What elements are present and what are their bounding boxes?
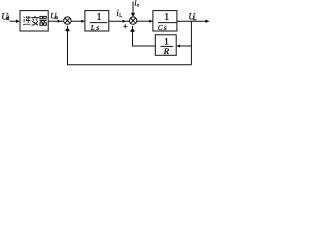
- svg-text:L: L: [119, 13, 122, 19]
- wire outer feedback bottom: [68, 26, 192, 65]
- value label 1 over R: [164, 38, 169, 48]
- glyph 逆: [23, 16, 30, 25]
- glyph 器: [40, 16, 47, 25]
- svg-text:s: s: [96, 23, 99, 32]
- arrowhead into 1/Cs: [149, 20, 153, 23]
- wire 1/Ls to sum2: [109, 20, 130, 22]
- node Udc input label: [1, 11, 9, 22]
- svg-text:dc: dc: [6, 16, 10, 22]
- arrowhead output: [205, 20, 209, 23]
- wire sum2 to block 1/Cs: [137, 20, 153, 22]
- wire 1/R output to sum2 bottom: [133, 26, 156, 46]
- wire 1/Cs to output: [177, 20, 206, 22]
- wire branch into 1/R: [180, 45, 191, 47]
- block 1/R: [155, 35, 176, 56]
- arrowhead into 1/Ls: [81, 20, 85, 23]
- node iL label: [116, 8, 122, 19]
- arrowhead 1/R feedback into sum2 bottom: [131, 28, 135, 32]
- wire input to inverter: [10, 20, 17, 22]
- arrowhead into sum1: [58, 20, 62, 23]
- svg-text:R: R: [163, 46, 170, 56]
- glyph 变: [31, 16, 39, 26]
- wire feedback vertical from output node: [190, 21, 192, 65]
- arrowhead into inverter: [16, 19, 20, 23]
- arrowhead outer feedback into sum1 bottom: [66, 28, 70, 32]
- svg-text:1: 1: [164, 12, 169, 23]
- svg-text:1: 1: [97, 12, 102, 23]
- arrowhead io into sum2 top: [131, 13, 135, 17]
- arrowhead into sum2 left: [123, 20, 127, 23]
- value label 1 over L·s: [97, 12, 102, 23]
- wire inverter to sum1: [48, 20, 64, 22]
- wire sum1 to block 1/Ls: [71, 20, 84, 22]
- svg-text:L: L: [193, 16, 197, 22]
- value label 1 over C·s: [164, 12, 169, 23]
- node UL output label: [188, 12, 197, 22]
- summing junction sum1: [64, 17, 71, 24]
- plus sign at sum2 left input: [123, 24, 127, 28]
- node Uab label: [50, 10, 58, 21]
- arrowhead into 1/R: [176, 44, 180, 47]
- summing junction sum2: [129, 17, 136, 24]
- block inverter 逆变器: [20, 11, 48, 31]
- wire io down into sum2: [132, 2, 134, 15]
- svg-text:o: o: [137, 4, 140, 9]
- svg-text:s: s: [164, 23, 167, 32]
- block 1/Ls: [85, 11, 109, 31]
- block 1/Cs: [153, 11, 177, 31]
- node io label: [134, 0, 140, 9]
